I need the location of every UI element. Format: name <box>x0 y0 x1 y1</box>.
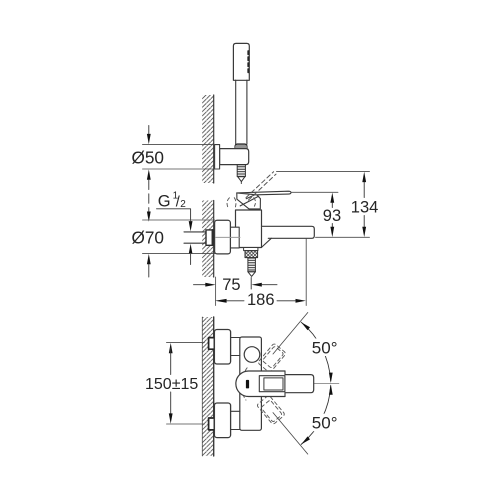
G1/2 leader line <box>157 209 191 221</box>
centerline through lever <box>240 383 339 385</box>
angle leader line lower <box>273 413 308 455</box>
holder wall flange (Ø50 escutcheon) <box>215 145 220 169</box>
spray face dashes <box>247 51 249 74</box>
dimension Ø70 arrow up (bottom) <box>147 254 151 264</box>
label 50° upper <box>310 339 339 357</box>
centerline arrow from above <box>329 373 333 383</box>
spout end extension line down <box>305 239 307 306</box>
wall (lower, hatched section) <box>202 317 213 456</box>
wall face extension line down <box>215 277 217 306</box>
dimension Ø50 arrow down <box>148 126 150 135</box>
svg-text:50°: 50° <box>312 414 338 433</box>
connector lines upper <box>231 337 240 339</box>
nipple centerline stub <box>250 278 252 290</box>
svg-text:134: 134 <box>351 198 379 216</box>
diverter knob (circle) <box>244 347 260 363</box>
svg-text:186: 186 <box>247 291 275 309</box>
connector lines lower <box>231 410 240 412</box>
dimension Ø70 arrow down (top) <box>147 212 151 222</box>
shower outlet thread block (cross-hatched) <box>245 251 258 258</box>
mixer body <box>236 210 262 248</box>
hose connector (threaded) below holder <box>237 165 245 177</box>
lever inner frame <box>259 376 285 392</box>
upper escutcheon block <box>214 330 230 365</box>
lever blade (closed position) <box>237 191 291 195</box>
hidden dome edge (dashed) <box>254 198 256 207</box>
angle arc upper <box>301 322 331 381</box>
tub spout <box>262 226 315 238</box>
G1/2 supply pipe through wall <box>184 231 206 233</box>
hand shower head <box>233 43 249 80</box>
mixer body (top view) <box>240 337 262 430</box>
G1/2 arrow up to pipe bottom <box>189 244 193 254</box>
dimension 134 <box>362 172 366 182</box>
angle arc lower <box>301 386 331 445</box>
shower shaft <box>235 80 237 144</box>
hidden lever knob (dashed) <box>227 198 236 209</box>
centerline dashes between Ø50 and Ø70 <box>148 180 150 212</box>
svg-text:150±15: 150±15 <box>145 376 198 393</box>
arc end arrow lower <box>301 436 310 444</box>
dimension 75 <box>194 284 206 286</box>
Ø70 extension line top <box>143 219 215 221</box>
dimension 186 <box>215 299 227 303</box>
wall back line (lower) <box>201 317 203 456</box>
wall (upper, hatched) <box>202 95 214 183</box>
wall face line (upper) <box>213 95 215 183</box>
holder arm <box>220 149 249 165</box>
arc end arrow upper <box>301 322 310 330</box>
dimension 150±15 extension lines <box>167 342 205 344</box>
Ø70 extension line bottom <box>143 253 215 255</box>
dimension 93 <box>330 193 334 203</box>
svg-text:75: 75 <box>222 276 240 294</box>
svg-text:Ø50: Ø50 <box>132 147 165 167</box>
svg-text:G: G <box>158 193 171 211</box>
index tick <box>246 380 249 389</box>
hose connector cone tip <box>238 177 245 182</box>
dashed lever rotated down 50° <box>238 374 289 428</box>
label 50° lower <box>310 414 339 432</box>
extension line from raised lever (134 top) <box>277 171 370 173</box>
wall face line (middle) <box>213 201 215 278</box>
wall (middle, hatched) <box>202 201 214 278</box>
shower outlet nipple (threaded) <box>248 258 256 272</box>
dimension Ø50 arrow up <box>147 169 151 179</box>
svg-text:Ø70: Ø70 <box>132 228 165 248</box>
nipple taper tip <box>248 272 256 277</box>
centerline arrow from below <box>329 384 333 394</box>
raised lever (dashed) <box>246 172 274 198</box>
union nut on pipe <box>206 230 213 245</box>
body underside chamfer <box>262 238 272 247</box>
lower escutcheon block <box>214 403 230 438</box>
G1/2 arrow down to pipe <box>189 221 193 231</box>
dimension Ø50 extension line top <box>143 144 215 146</box>
angle leader line upper <box>273 313 308 355</box>
mixer escutcheon (Ø70) <box>215 220 231 254</box>
knurled cone of holder <box>235 144 247 151</box>
svg-text:50°: 50° <box>312 338 338 357</box>
lever neck lines <box>240 196 259 206</box>
hidden centerline through escutcheon <box>216 236 241 238</box>
svg-text:93: 93 <box>323 207 341 225</box>
cartridge dome <box>237 193 261 209</box>
extension line bottom of spout <box>316 236 370 238</box>
dashed lever rotated up 50° <box>239 340 290 394</box>
dimension 150±15 line + arrows <box>169 343 173 353</box>
lever bar <box>285 375 314 393</box>
dimension Ø50 extension line bottom <box>143 168 220 170</box>
upper union tab behind wall <box>209 338 215 350</box>
lower union tab behind wall <box>209 418 215 430</box>
wall face line (lower) <box>213 317 215 456</box>
shower outlet cap <box>244 248 258 251</box>
extension line from lever (93 top) <box>292 191 339 193</box>
mixer escutcheon ring <box>230 227 239 248</box>
lever cap (stadium, top view) <box>236 371 285 397</box>
